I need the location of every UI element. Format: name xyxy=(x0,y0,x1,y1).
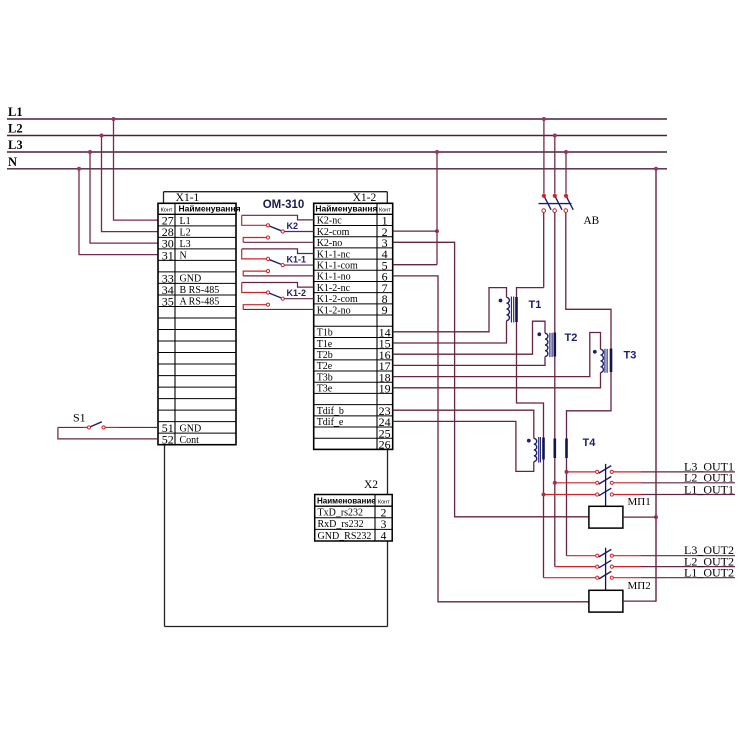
svg-text:RxD_rs232: RxD_rs232 xyxy=(318,519,364,530)
svg-text:52: 52 xyxy=(162,433,174,447)
svg-text:T3b: T3b xyxy=(317,372,333,383)
svg-text:N: N xyxy=(180,250,187,261)
svg-text:L1: L1 xyxy=(8,105,23,119)
svg-text:K1-2-no: K1-2-no xyxy=(317,305,351,316)
svg-text:4: 4 xyxy=(381,531,387,543)
svg-text:L2: L2 xyxy=(180,227,191,238)
svg-text:Cont: Cont xyxy=(180,435,200,446)
svg-text:T1e: T1e xyxy=(317,339,333,350)
svg-text:K1-1-no: K1-1-no xyxy=(317,272,351,283)
svg-text:GND_RS232: GND_RS232 xyxy=(318,531,372,542)
svg-text:K1-2-com: K1-2-com xyxy=(317,294,358,305)
svg-text:GND: GND xyxy=(180,423,202,434)
svg-text:K1-1-nc: K1-1-nc xyxy=(317,249,351,260)
svg-text:L2: L2 xyxy=(8,122,23,136)
svg-text:Tdif_b: Tdif_b xyxy=(317,406,344,417)
svg-text:X2: X2 xyxy=(364,479,378,491)
svg-text:Конт: Конт xyxy=(378,499,390,505)
svg-text:35: 35 xyxy=(162,294,174,308)
svg-text:МП2: МП2 xyxy=(628,580,651,592)
svg-text:N: N xyxy=(8,155,17,169)
svg-text:3: 3 xyxy=(381,519,387,531)
svg-text:31: 31 xyxy=(162,248,174,262)
svg-text:Т3: Т3 xyxy=(624,350,637,362)
svg-text:L3: L3 xyxy=(180,239,191,250)
svg-text:TxD_rs232: TxD_rs232 xyxy=(318,508,364,519)
svg-text:L1: L1 xyxy=(180,216,191,227)
svg-text:МП1: МП1 xyxy=(628,496,651,508)
svg-text:T2e: T2e xyxy=(317,361,333,372)
svg-text:K2-com: K2-com xyxy=(317,227,350,238)
svg-text:19: 19 xyxy=(379,382,391,396)
svg-text:Т4: Т4 xyxy=(583,437,597,449)
svg-text:АВ: АВ xyxy=(584,215,600,227)
svg-text:K1-2-nc: K1-2-nc xyxy=(317,283,351,294)
svg-text:L3: L3 xyxy=(8,138,23,152)
svg-text:Конт: Конт xyxy=(161,207,173,213)
svg-text:K1-2: K1-2 xyxy=(287,288,307,298)
svg-text:B RS-485: B RS-485 xyxy=(180,285,220,296)
svg-text:A RS-485: A RS-485 xyxy=(180,297,220,308)
svg-text:K2-no: K2-no xyxy=(317,238,343,249)
svg-text:9: 9 xyxy=(382,303,388,317)
svg-text:Конт: Конт xyxy=(379,207,391,213)
svg-text:T1b: T1b xyxy=(317,328,333,339)
svg-text:Найменування: Найменування xyxy=(179,204,241,214)
svg-text:K1-1-com: K1-1-com xyxy=(317,260,358,271)
svg-text:Наименование: Наименование xyxy=(317,497,376,506)
svg-text:K2: K2 xyxy=(287,221,299,231)
svg-text:Найменування: Найменування xyxy=(315,204,377,214)
svg-text:L1_OUT1: L1_OUT1 xyxy=(684,483,734,497)
svg-text:Т1: Т1 xyxy=(529,299,542,311)
svg-text:ОМ-310: ОМ-310 xyxy=(263,199,305,211)
svg-text:X1-2: X1-2 xyxy=(353,192,377,204)
svg-text:Tdif_e: Tdif_e xyxy=(317,417,344,428)
svg-text:K1-1: K1-1 xyxy=(287,254,307,264)
svg-text:GND: GND xyxy=(180,274,202,285)
svg-text:2: 2 xyxy=(381,507,387,519)
svg-text:T3e: T3e xyxy=(317,384,333,395)
svg-text:L1_OUT2: L1_OUT2 xyxy=(684,566,734,580)
svg-text:K2-nc: K2-nc xyxy=(317,216,343,227)
svg-text:X1-1: X1-1 xyxy=(176,192,200,204)
svg-text:T2b: T2b xyxy=(317,350,333,361)
svg-text:S1: S1 xyxy=(73,411,86,425)
svg-text:26: 26 xyxy=(379,438,391,452)
svg-text:Т2: Т2 xyxy=(565,332,578,344)
